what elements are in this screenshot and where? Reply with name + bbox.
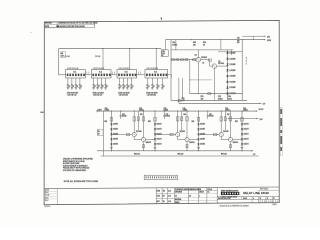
resistor collector stage 3: [220, 117, 222, 121]
svg-text:47: 47: [163, 86, 165, 88]
capacitor C21 with ground: [130, 78, 132, 85]
capacitor C18 with ground: [118, 78, 120, 85]
svg-text:YH: YH: [163, 201, 165, 203]
resistor collector stage 2: [177, 117, 179, 121]
wire Q1 emitter down: [197, 62, 199, 94]
wire lower section bottom bus: [97, 150, 253, 152]
svg-text:1/1: 1/1: [208, 192, 210, 194]
ground mark column 4: [241, 146, 244, 148]
wire Vdd bus of BBD section: [59, 48, 162, 50]
resistor emitter stage 2: [186, 145, 188, 148]
diode column 4 D5: [241, 143, 243, 145]
svg-text:IC1: IC1: [73, 72, 76, 74]
diode column 3 D1: [197, 123, 199, 125]
resistor R41: [172, 59, 175, 61]
diode D6 1S1588: [226, 81, 228, 83]
svg-text:0.2: 0.2: [189, 195, 191, 197]
wire chain/verticals to ground rail: [213, 94, 215, 101]
node coupling marks between IC1 and IC2: [86, 72, 88, 75]
svg-text:R61: R61: [140, 114, 143, 116]
svg-text:0.5: 0.5: [175, 195, 177, 197]
svg-text:Q2: Q2: [218, 61, 220, 63]
capacitor C15 with ground: [97, 78, 99, 85]
diode bias column 4: [241, 111, 243, 151]
svg-text:47: 47: [120, 86, 122, 88]
svg-text:IC3: IC3: [125, 72, 128, 74]
svg-text:R62: R62: [235, 121, 238, 123]
svg-text:VOLTAGE DC MEASURED: VOLTAGE DC MEASURED: [63, 169, 87, 172]
svg-text:1S2473: 1S2473: [113, 124, 118, 126]
resistor stage 1 upper right: [142, 117, 144, 121]
svg-text:SPECIFIED: SPECIFIED: [175, 192, 182, 194]
wire PSU ground rail 0V: [171, 99, 247, 101]
svg-text:47: 47: [81, 86, 83, 88]
fold mark left edge: [40, 112, 44, 113]
resistor stage 2 upper right: [186, 117, 188, 121]
stray mark left margin: [30, 31, 31, 34]
wire PSU top bus: [166, 39, 265, 41]
svg-text:100/16: 100/16: [225, 110, 230, 112]
svg-text:2SC945: 2SC945: [136, 131, 142, 133]
wire vertical feed to rail: [178, 78, 180, 104]
svg-text:1S2473: 1S2473: [157, 124, 162, 126]
svg-text:Q1: Q1: [195, 54, 197, 56]
svg-text:1K: 1K: [203, 63, 205, 65]
svg-text:NOTE: ALL DIODES ARE TYPE 1S15: NOTE: ALL DIODES ARE TYPE 1S1588: [64, 180, 98, 183]
capacitor C23 with ground: [151, 78, 153, 85]
svg-text:100/16: 100/16: [166, 116, 171, 118]
wire Q4 collector to bus: [143, 111, 145, 137]
svg-text:REVISED: REVISED: [45, 23, 53, 25]
diode column 4 D3: [241, 133, 243, 135]
svg-text:100/16: 100/16: [105, 110, 110, 112]
ground mark column 3: [197, 146, 200, 148]
svg-text:100: 100: [237, 40, 240, 42]
svg-text:1S2473: 1S2473: [157, 139, 162, 141]
svg-text:CHK: CHK: [157, 196, 160, 198]
title block middle table: [174, 190, 217, 192]
ground mark column 1: [110, 146, 113, 148]
wire mid rail right: [229, 118, 258, 120]
svg-text:1S1588: 1S1588: [229, 64, 235, 66]
wire lower section top bus B15V: [97, 110, 257, 112]
svg-text:FINISH: FINISH: [175, 202, 179, 204]
svg-text:P-14: P-14: [162, 53, 165, 55]
IC4 pin row: [146, 74, 148, 77]
net label bus left stub: [96, 110, 98, 112]
transistor Q2: [212, 64, 217, 69]
diode column 2 D1: [154, 123, 156, 125]
node coupling marks between IC3 and IC4: [137, 72, 139, 75]
diode column 1 D4: [110, 138, 112, 140]
diode column 3 D5: [197, 143, 199, 145]
svg-text:IC4: IC4: [154, 72, 157, 74]
svg-text:47: 47: [132, 86, 134, 88]
svg-text:47/16 0.04 47/16: 47/16 0.04 47/16: [146, 92, 157, 94]
resistor R44: [185, 59, 188, 61]
resistor leg: [224, 111, 226, 130]
IC2 pin row: [92, 74, 94, 77]
wire vertical C31: [175, 40, 177, 50]
capacitor C19 with ground: [122, 78, 124, 85]
resistor R42: [176, 59, 179, 61]
svg-text:C36: C36: [164, 108, 167, 110]
IC1 pin row: [67, 74, 69, 77]
node bus junction to IC3: [129, 48, 130, 49]
border frame: [44, 20, 279, 204]
resistor collector stage 1: [133, 117, 135, 121]
svg-text:C14 C15 C16: C14 C15 C16: [93, 95, 102, 97]
diode column 2 D5: [154, 143, 156, 145]
diode column 2 D3: [154, 133, 156, 135]
svg-text:47/16 0.04 47/16: 47/16 0.04 47/16: [118, 92, 129, 94]
resistor leg: [137, 111, 139, 130]
capacitor hanging from bus: [163, 111, 165, 115]
svg-text:C36: C36: [183, 108, 186, 110]
svg-text:100/16: 100/16: [209, 116, 214, 118]
capacitor hanging from bus: [207, 111, 209, 115]
wire Q1 collector to Q2 base: [201, 59, 210, 61]
wire Q3 collector to bus: [133, 111, 135, 132]
resistor base stage 1: [127, 134, 130, 136]
svg-text:16100: 16100: [243, 198, 247, 200]
capacitor C13 with ground: [79, 78, 81, 85]
svg-text:47: 47: [69, 86, 71, 88]
resistor emitter stage 1: [143, 145, 145, 148]
diode column 3 D3: [197, 133, 199, 135]
net label 4B: [61, 52, 66, 58]
wire IC2 to IC3: [111, 74, 117, 76]
svg-text:1S2473: 1S2473: [113, 144, 118, 146]
svg-text:C22 C23 C24: C22 C23 C24: [147, 95, 156, 97]
svg-text:C33: C33: [218, 96, 221, 98]
resistor R53: [178, 100, 181, 102]
diode column 1 D3: [110, 133, 112, 135]
fold mark top center: [161, 18, 163, 21]
svg-text:R62: R62: [148, 121, 151, 123]
wire Q2 emitter to zener chain: [217, 65, 228, 67]
resistor base stage 2: [170, 134, 173, 136]
net label bus right arrow: [256, 110, 258, 111]
wire vertical R50: [197, 50, 199, 58]
svg-text:9 10 11 12 13 14 15: 9 10 11 12 13 14 15: [93, 68, 105, 70]
svg-text:2P: 2P: [162, 55, 164, 57]
wire vertical at x220.9: [220, 40, 222, 50]
BBD delay IC4: [145, 70, 168, 78]
resistor R55: [208, 59, 211, 61]
svg-text:IN: IN: [98, 134, 100, 136]
svg-text:47/16 0.04 47/16: 47/16 0.04 47/16: [93, 92, 104, 94]
wire base feed stage 3: [198, 134, 219, 136]
diode D9: [193, 59, 196, 61]
wire Q7 collector to bus: [220, 111, 222, 132]
wire bus left drop to IC1: [58, 49, 60, 75]
revision note box: [44, 22, 94, 28]
diode bias column 3: [198, 111, 200, 151]
svg-text:47: 47: [102, 86, 104, 88]
capacitor C17 with ground: [105, 78, 107, 85]
svg-text:1S1588: 1S1588: [229, 58, 235, 60]
svg-text:47: 47: [98, 86, 100, 88]
svg-text:DELAY LINE 16100: DELAY LINE 16100: [243, 191, 269, 195]
node bus junction to IC4: [156, 48, 157, 49]
svg-text:2SC945: 2SC945: [223, 131, 229, 133]
capacitor C10 with ground: [67, 78, 69, 85]
svg-text:5B: 5B: [98, 131, 100, 133]
svg-text:12-8: 12-8: [168, 201, 171, 203]
resistor base stage 3: [214, 134, 217, 136]
transistor Q4: [141, 138, 145, 142]
svg-text:11: 11: [267, 198, 269, 200]
wire base feed stage 2: [155, 134, 176, 136]
wire Q5 emitter to Q6: [177, 137, 179, 140]
svg-text:25V: 25V: [237, 42, 240, 44]
svg-text:R53: R53: [182, 98, 185, 100]
wire bus drop to CN1: [165, 40, 167, 50]
wire Q8 collector to bus: [230, 111, 232, 137]
svg-text:12-6: 12-6: [168, 196, 171, 198]
ground mark column 2: [154, 146, 157, 148]
svg-text:1S2473: 1S2473: [244, 134, 249, 136]
diode column 1 D5: [110, 143, 112, 145]
capacitor C20 with ground: [126, 78, 128, 85]
diode D8 1S1588: [226, 92, 228, 94]
BBD delay IC1: [66, 70, 86, 78]
svg-text:1S1588: 1S1588: [229, 81, 235, 83]
svg-text:1S1588: 1S1588: [229, 93, 235, 95]
net label 5B input: [97, 129, 103, 135]
wire vertical from bus at x171: [170, 40, 172, 100]
svg-text:47: 47: [128, 86, 130, 88]
wire rail second: [179, 102, 261, 104]
svg-text:1S2473: 1S2473: [244, 144, 249, 146]
svg-text:100/16: 100/16: [243, 110, 248, 112]
svg-text:78: 78: [273, 198, 275, 200]
svg-text:1S2473: 1S2473: [157, 144, 162, 146]
svg-text:C5 0.04: C5 0.04: [95, 56, 100, 58]
svg-text:KS: KS: [163, 196, 165, 198]
svg-text:C18 C19 C20: C18 C19 C20: [119, 95, 128, 97]
svg-text:1S1588: 1S1588: [229, 70, 235, 72]
svg-text:DIMENSION IN MM: DIMENSION IN MM: [189, 189, 201, 191]
wire base feed stage 1: [111, 134, 132, 136]
diode column 1 D2: [110, 128, 112, 130]
wire Q7 emitter to Q8: [220, 137, 222, 140]
diode column 1 D1: [110, 123, 112, 125]
wire left bypass vertical: [189, 60, 191, 94]
svg-text:C32: C32: [237, 38, 240, 40]
wire Q3 emitter to Q4: [133, 137, 135, 140]
svg-text:47: 47: [124, 86, 126, 88]
svg-text:R62: R62: [104, 121, 107, 123]
zener diode chain line: [227, 50, 229, 100]
svg-text:9 10 11 12 13 14 15: 9 10 11 12 13 14 15: [67, 68, 79, 70]
diode column 4 D2: [241, 128, 243, 130]
wire IC3 to IC4: [137, 74, 145, 76]
capacitor C12 with ground: [75, 78, 77, 85]
resistor in column 4: [241, 118, 243, 122]
wire right vertical rail: [241, 40, 243, 101]
net label 15V top lines: [242, 35, 265, 37]
svg-text:R52: R52: [201, 96, 204, 98]
svg-text:1S2473: 1S2473: [113, 139, 118, 141]
diode D1 1S1588: [226, 52, 228, 54]
svg-text:16100 SCH-1 PRINTED IN JAPAN: 16100 SCH-1 PRINTED IN JAPAN: [220, 205, 250, 208]
transistor Q3: [132, 133, 136, 137]
svg-text:1S2473: 1S2473: [200, 129, 205, 131]
svg-text:R62: R62: [192, 121, 195, 123]
svg-text:R64 100: R64 100: [178, 153, 184, 155]
svg-text:47: 47: [158, 86, 160, 88]
svg-text:J-4819: J-4819: [272, 204, 277, 206]
resistor R54: [208, 93, 211, 95]
svg-text:S1: S1: [260, 198, 262, 200]
resistor in column 2: [154, 118, 156, 122]
wire left vertical tie: [102, 111, 104, 156]
svg-text:C1 0.04: C1 0.04: [65, 56, 70, 58]
diode D5 1S1588: [226, 75, 228, 77]
diode column 2 D2: [154, 128, 156, 130]
capacitor C11 with ground: [71, 78, 73, 85]
wire PSU second rail: [171, 49, 233, 51]
svg-text:1S1588: 1S1588: [229, 76, 235, 78]
capacitor C24 with ground: [156, 78, 158, 85]
wire Q2 down: [213, 68, 215, 93]
svg-text:R61: R61: [183, 114, 186, 116]
svg-text:C37: C37: [209, 114, 212, 116]
wire IC1 to IC2: [85, 74, 91, 76]
svg-text:C36: C36: [139, 108, 142, 110]
svg-text:1S2473: 1S2473: [244, 124, 249, 126]
svg-text:R64 100: R64 100: [134, 153, 140, 155]
wire Q6 emitter to bottom bus: [186, 142, 188, 151]
svg-text:C10 C11 C12: C10 C11 C12: [67, 95, 76, 97]
transistor Q1: [196, 57, 201, 62]
resistor stage 3 upper right: [229, 117, 231, 121]
diode D3 1S1588: [226, 64, 228, 66]
wire PSU lower rail: [190, 93, 242, 95]
diode column 3 D2: [197, 128, 199, 130]
diode column 2 D4: [154, 138, 156, 140]
svg-text:CN1: CN1: [162, 51, 165, 53]
svg-text:47/16 0.04 47/16: 47/16 0.04 47/16: [67, 92, 78, 94]
svg-text:E 4-2: E 4-2: [45, 200, 49, 202]
svg-text:47: 47: [148, 86, 150, 88]
svg-text:R50: R50: [193, 42, 196, 44]
wire Q6 output to next column: [189, 139, 198, 141]
svg-text:100/16: 100/16: [122, 116, 127, 118]
svg-text:1S1588: 1S1588: [229, 87, 235, 89]
svg-text:C34: C34: [228, 96, 231, 98]
wire chain top rail: [218, 51, 242, 53]
svg-text:2SC945: 2SC945: [180, 131, 186, 133]
wire Q8 output to next column: [233, 139, 242, 141]
svg-text:1S1588: 1S1588: [229, 53, 235, 55]
transistor Q7: [219, 133, 223, 137]
svg-text:1S2473: 1S2473: [200, 144, 205, 146]
svg-text:2SC945: 2SC945: [218, 63, 224, 65]
svg-text:C36: C36: [105, 108, 108, 110]
svg-text:2SD313: 2SD313: [201, 57, 207, 59]
svg-text:1S2473: 1S2473: [157, 129, 162, 131]
wire Q5 collector to bus: [177, 111, 179, 132]
wire vertical at x231.6: [231, 50, 233, 55]
svg-text:12-5: 12-5: [168, 190, 171, 192]
wire Q4 emitter to bottom bus: [143, 142, 145, 151]
BBD delay IC3: [117, 70, 137, 78]
node coupling marks between IC2 and IC3: [112, 72, 114, 75]
diode bias column 2: [154, 111, 156, 151]
capacitor hanging from bus: [120, 111, 122, 115]
wire Q6 collector to bus: [186, 111, 188, 137]
svg-text:47: 47: [153, 86, 155, 88]
net label bottom bus right arrow: [252, 150, 254, 151]
svg-text:IC2: IC2: [99, 72, 102, 74]
svg-text:C36: C36: [243, 108, 246, 110]
diode D2 1S1588: [226, 58, 228, 60]
svg-text:C37: C37: [122, 114, 125, 116]
edge strip right margin: [280, 107, 282, 155]
capacitor C22 with ground: [146, 78, 148, 85]
diode D4 1S1588: [226, 69, 228, 71]
IC3 pin row: [118, 74, 120, 77]
diode column 4 D4: [241, 138, 243, 140]
svg-text:C36: C36: [225, 108, 228, 110]
svg-text:R64 100: R64 100: [221, 153, 227, 155]
transistor Q6: [185, 138, 189, 142]
svg-text:47: 47: [106, 86, 108, 88]
capacitor C16 with ground: [101, 78, 103, 85]
connector J1 strip: [144, 175, 177, 179]
svg-text:1S2473: 1S2473: [244, 129, 249, 131]
wire IC4 output to right: [168, 74, 172, 76]
diode D7 1S1588: [226, 87, 228, 89]
svg-text:1S2473: 1S2473: [244, 139, 249, 141]
capacitor C25 with ground: [161, 78, 163, 85]
svg-text:9 10 11 12 13 14 15: 9 10 11 12 13 14 15: [147, 68, 159, 70]
node bus junction to IC2: [102, 48, 103, 49]
svg-text:47: 47: [94, 86, 96, 88]
svg-text:47: 47: [73, 86, 75, 88]
resistor R43: [181, 59, 184, 61]
wire Q4 output to next column: [146, 139, 155, 141]
title block tick band: [258, 200, 260, 202]
wire Q8 emitter to bottom bus: [230, 142, 232, 151]
resistor in column 3: [197, 118, 199, 122]
svg-text:47: 47: [77, 86, 79, 88]
connector CN1 box: [161, 50, 168, 57]
svg-text:220: 220: [193, 44, 196, 46]
transistor Q8: [228, 138, 232, 142]
svg-text:DRN: DRN: [157, 190, 160, 192]
svg-text:470/25: 470/25: [172, 44, 177, 46]
wire regulator input row: [171, 59, 196, 61]
BBD delay IC2: [91, 70, 111, 78]
title block left cells: [155, 188, 157, 204]
transistor Q5: [176, 133, 180, 137]
svg-text:R61: R61: [227, 114, 230, 116]
diode column 4 D1: [241, 123, 243, 125]
wire vertical second feed: [182, 78, 184, 99]
revision history strip: [44, 187, 279, 189]
svg-text:R51: R51: [203, 42, 206, 44]
node PSU bus junctions: [191, 39, 192, 40]
diode column 3 D4: [197, 138, 199, 140]
revision stamp blob: [56, 25, 59, 27]
wire lower second rail: [101, 155, 259, 157]
resistor in column 1: [110, 118, 112, 122]
svg-text:9 10 11 12 13 14 15: 9 10 11 12 13 14 15: [119, 68, 131, 70]
